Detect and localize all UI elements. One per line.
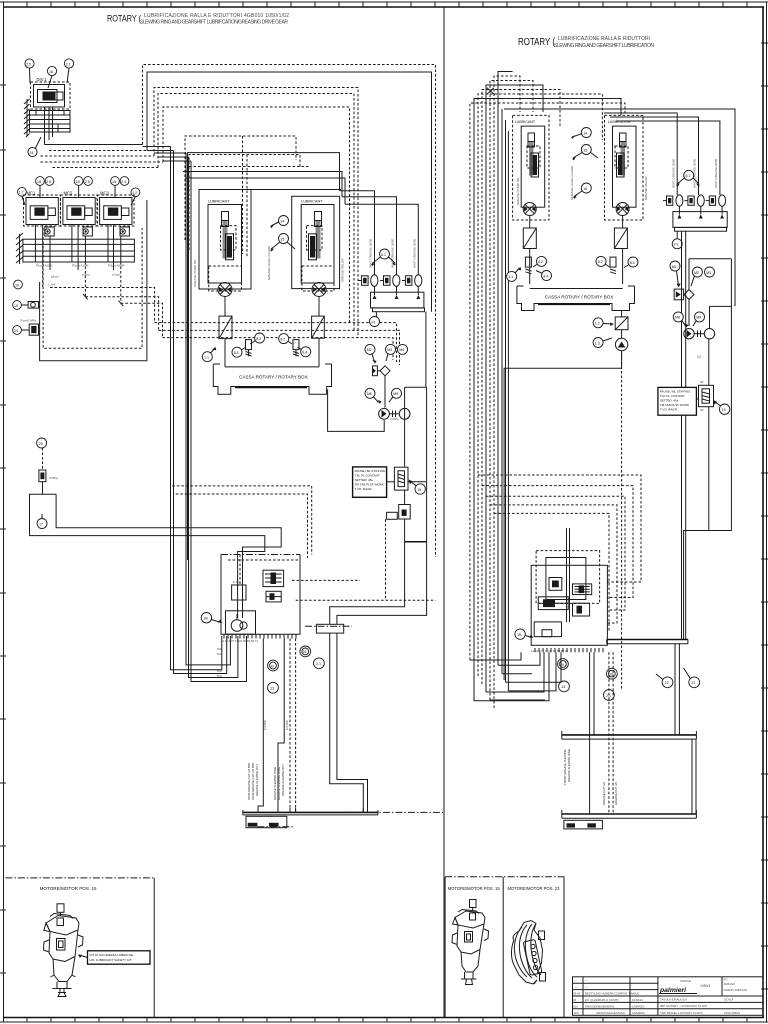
svg-text:CODICE: CODICE — [680, 979, 691, 983]
bundle solid vertical 3 — [186, 153, 230, 665]
svg-text:1/4 BSP: 1/4 BSP — [263, 720, 267, 730]
svg-text:EMISSIONE/GENERAL: EMISSIONE/GENERAL — [585, 1004, 615, 1008]
balloon M2 — [365, 344, 377, 363]
balloon 1.2 right of MC row — [131, 188, 140, 197]
svg-text:SLEWING RING AND GEARSHIFT LUB: SLEWING RING AND GEARSHIFT LUBRIFICATION — [554, 43, 654, 49]
svg-text:T.M. PL COSTANT: T.M. PL COSTANT — [660, 394, 685, 398]
MC3 pilot component — [120, 227, 129, 236]
valve DIV.1 body — [34, 85, 65, 108]
svg-text:13: 13 — [270, 687, 274, 691]
svg-text:p2out: p2out — [51, 275, 59, 279]
bundle R bottom hooks — [470, 652, 561, 700]
note box leader — [387, 481, 395, 483]
pump 2 internal dashed bottom box — [302, 266, 334, 291]
svg-text:2.5: 2.5 — [85, 180, 90, 184]
valve DIV.1 dashed enclosure — [31, 82, 71, 109]
svg-text:LUBRICANT: LUBRICANT — [515, 120, 536, 124]
column R manifold box — [673, 206, 727, 227]
balloon RM1 — [670, 261, 681, 288]
svg-text:18: 18 — [37, 180, 41, 184]
dashed bus MC to bundle y303 — [121, 303, 163, 337]
note box pump instructions — [353, 467, 387, 497]
balloon 17 in channel — [37, 514, 47, 529]
balloon R19 — [713, 400, 730, 414]
grease pump R1 inner box — [521, 126, 545, 207]
svg-text:A-SOL: A-SOL — [233, 580, 242, 584]
svg-text:IMP. ROTARY - HYDRAULIC PLANT: IMP. ROTARY - HYDRAULIC PLANT — [660, 1004, 708, 1008]
balloon 1.1 tank — [202, 347, 216, 362]
balloon R1.2 — [593, 318, 614, 328]
label 70A lower — [217, 669, 222, 678]
MC valve drop wires into manifold — [35, 225, 120, 263]
feed pump ellipse — [379, 408, 410, 419]
DIV.1 wall hatching — [24, 99, 30, 137]
svg-text:PAUSE / BL STIFFING: PAUSE / BL STIFFING — [660, 389, 691, 393]
title block bottom rows — [574, 998, 741, 1015]
svg-text:22: 22 — [665, 681, 669, 685]
dashdot bar extension right — [345, 811, 443, 813]
MC manifold block — [23, 239, 134, 262]
balloon M4 — [398, 344, 408, 354]
wire right dogleg dashed — [292, 579, 360, 581]
timer R riser — [708, 339, 710, 531]
pump R1 rotor circle — [523, 203, 536, 216]
balloon 19 timer — [409, 480, 426, 495]
svg-text:WHIT GREASE 30/50: WHIT GREASE 30/50 — [671, 158, 675, 188]
balloon 8.4 — [232, 347, 246, 357]
svg-text:8.2: 8.2 — [280, 337, 285, 341]
pump 1 internal dashed bottom box — [209, 266, 242, 291]
svg-text:P2out A10M: P2out A10M — [72, 264, 89, 268]
svg-text:M2: M2 — [694, 271, 699, 275]
svg-text:3 bar/2 MPa: 3 bar/2 MPa — [20, 319, 37, 323]
right loop wires — [684, 259, 732, 640]
svg-text:ROTARY (: ROTARY ( — [107, 14, 142, 25]
lower assembly R outer box — [531, 565, 607, 645]
valve MC1 — [26, 198, 58, 225]
check diamond — [380, 366, 390, 408]
svg-text:18: 18 — [112, 180, 116, 184]
pedestal R below bar — [564, 820, 603, 829]
svg-text:70A: 70A — [217, 669, 222, 673]
lower assembly R inner box — [546, 558, 586, 600]
svg-text:GREASE SLEWING OUT: GREASE SLEWING OUT — [281, 764, 285, 796]
balloon 1B assembly — [201, 613, 222, 624]
dashed bus MC to bundle y296 — [85, 297, 158, 331]
svg-text:1.7: 1.7 — [19, 191, 24, 195]
svg-text:19: 19 — [417, 488, 421, 492]
svg-text:LUBRICANT: LUBRICANT — [301, 200, 323, 204]
rotated labels right column R — [671, 158, 718, 188]
balloon 8.2 — [250, 333, 265, 344]
wire from tall box left edge to assembly — [330, 542, 405, 625]
svg-text:2.6: 2.6 — [46, 180, 51, 184]
svg-text:14: 14 — [280, 219, 284, 223]
solid risers right pair — [330, 633, 364, 812]
pressure switch note box R — [658, 387, 697, 415]
sheet centre divider between the two schematic halves — [443, 7, 445, 1018]
manifold outlet wire down — [425, 312, 427, 388]
svg-text:M8: M8 — [675, 316, 680, 320]
MC port tiny labels — [36, 264, 125, 287]
pumps enclosure solid box top — [188, 153, 340, 560]
svg-text:24: 24 — [14, 329, 18, 333]
pump R2 piston — [620, 133, 627, 176]
svg-text:13: 13 — [561, 685, 565, 689]
title block tiny row texts — [573, 979, 645, 1009]
rotated labels right column — [369, 238, 417, 268]
column R dosing valve 3 — [706, 195, 726, 206]
svg-text:SLEWING RING AND GEARSHIFT LUB: SLEWING RING AND GEARSHIFT LUBRIF.CATION… — [140, 20, 288, 26]
label 70A upper — [217, 647, 222, 656]
balloon 24 left column — [13, 326, 22, 335]
svg-text:1.1: 1.1 — [508, 275, 513, 279]
lower assembly R dashed outer — [536, 551, 600, 604]
filter F1 square — [219, 316, 232, 339]
dashed drop from grease shot valve — [385, 519, 387, 600]
svg-text:70A: 70A — [217, 674, 222, 678]
svg-text:1.2: 1.2 — [595, 322, 600, 326]
MC1 pilot component — [45, 227, 54, 236]
solenoid block — [232, 580, 246, 600]
long rail y109 — [504, 109, 735, 306]
grease pump unit 1 inner box — [208, 205, 242, 284]
svg-text:M3: M3 — [706, 271, 711, 275]
svg-text:8.2: 8.2 — [598, 260, 603, 264]
dashed bus MC to bundle y287 — [50, 288, 155, 323]
svg-text:GREASE LEVEL GAUGE: GREASE LEVEL GAUGE — [570, 166, 574, 200]
balloon 8.4b — [298, 347, 311, 357]
dashed staircase into lower assembly R — [478, 475, 641, 582]
svg-text:70A: 70A — [217, 647, 222, 651]
balloon R26 — [607, 668, 618, 679]
title block left table — [573, 977, 764, 1016]
pump R2 dark element — [617, 153, 625, 177]
port riser x284 — [278, 639, 284, 813]
gauge component left — [21, 302, 38, 309]
tall box bottom bold — [405, 541, 427, 543]
svg-text:M9: M9 — [393, 392, 398, 396]
vertical pair through timer — [405, 387, 427, 542]
svg-text:M3: M3 — [387, 348, 392, 352]
svg-text:GREASE PUMP 30L: GREASE PUMP 30L — [516, 177, 520, 205]
manifold bar R1 — [607, 640, 688, 644]
balloon F1 under manifold — [370, 312, 380, 327]
balloon R21 — [604, 690, 615, 701]
svg-text:EX. QUADRUPLO COSTR: EX. QUADRUPLO COSTR — [585, 998, 619, 1002]
wire bus dashed y150 — [49, 150, 147, 152]
nest wire dashed third — [154, 88, 358, 338]
svg-text:GREASE OUT 1/4: GREASE OUT 1/4 — [614, 782, 618, 805]
manifold R down pair — [682, 231, 686, 639]
svg-text:M9: M9 — [696, 316, 701, 320]
nest corner wires right half — [470, 103, 625, 660]
manifold bar R2 long — [562, 731, 697, 739]
assembly R lower pump box — [534, 622, 561, 637]
pump R1 dark element — [531, 153, 539, 177]
nest wire dashed fourth — [158, 94, 354, 331]
grease pump unit 2 inner box — [301, 205, 334, 284]
pump 2 rotor circle — [312, 283, 326, 297]
svg-text:18: 18 — [76, 180, 80, 184]
pump units top rail — [199, 189, 341, 191]
balloon R8.2 — [533, 256, 547, 267]
MC feeder stubs — [22, 185, 135, 205]
svg-text:PAUSE / BL STIFFING: PAUSE / BL STIFFING — [355, 469, 386, 473]
MC2 pilot component — [83, 227, 92, 236]
balloon R8.4 — [536, 271, 552, 281]
motor drawing R pos23 radial — [511, 921, 545, 985]
balloon 1.7 MC row — [18, 187, 27, 196]
sheet frame left border — [3, 2, 5, 1022]
svg-text:14: 14 — [583, 131, 587, 135]
motor pump box lower — [226, 611, 256, 634]
svg-text:TM TAB PLSF WORK: TM TAB PLSF WORK — [355, 483, 384, 487]
svg-text:2.1: 2.1 — [66, 62, 71, 66]
svg-text:8.4: 8.4 — [302, 351, 307, 355]
balloon M3 — [386, 344, 396, 361]
svg-text:CASSA ROTARY / ROTARY BOX: CASSA ROTARY / ROTARY BOX — [545, 295, 614, 300]
sheet frame right inner border — [762, 7, 764, 1018]
svg-text:8.4: 8.4 — [630, 261, 635, 265]
MC manifold wall hatching — [16, 233, 23, 264]
sheet frame outer top line — [0, 1, 768, 3]
balloon R15 — [572, 145, 598, 161]
filter R3 below tank — [615, 311, 628, 330]
svg-text:A1 A2 A3 P T1 M1 M2 B1 B2 C1: A1 A2 A3 P T1 M1 M2 B1 B2 C1 — [531, 649, 569, 653]
tank feed from pump1 — [224, 297, 226, 317]
svg-text:T.M. PL COSTANT: T.M. PL COSTANT — [355, 474, 380, 478]
balloon RF1 — [672, 231, 682, 249]
valve MC3 — [100, 198, 132, 225]
bar labels ticks — [258, 808, 363, 812]
svg-text:LUBRIFICAZIONE RALLA E RIDUTTO: LUBRIFICAZIONE RALLA E RIDUTTORI — [558, 36, 650, 42]
dashed feeder H1 into lower assembly — [172, 486, 311, 555]
frame ruler ticks right — [761, 43, 768, 989]
svg-text:01A: 01A — [573, 1004, 578, 1008]
column manifold box — [371, 286, 424, 308]
valve MC3 dashed enclosure — [97, 195, 134, 226]
svg-text:20: 20 — [271, 664, 275, 668]
svg-text:FG: FG — [724, 978, 728, 982]
pump R1 dashed pilot box — [527, 146, 540, 168]
balloon 13 below assembly — [268, 682, 279, 693]
svg-text:1B: 1B — [203, 617, 208, 621]
title left half — [107, 13, 289, 26]
balloon 21 right — [314, 658, 325, 669]
pedestal below bar — [246, 816, 287, 827]
column R dosing valve 2 — [684, 195, 704, 206]
svg-text:CASSA ROTARY / ROTARY BOX: CASSA ROTARY / ROTARY BOX — [239, 375, 308, 380]
balloon R8.2b — [596, 256, 610, 267]
balloon RM9 — [693, 312, 705, 326]
manifold bar R2 verticals down pair — [675, 644, 696, 814]
sheet frame right outer border — [766, 2, 768, 1022]
lower assembly dashed top overlay — [228, 555, 300, 586]
balloon RM2 — [691, 267, 702, 286]
balloon R1.1 — [507, 267, 522, 281]
bottom manifold bar left half — [243, 810, 378, 815]
relief valve left of tank 1 — [246, 340, 252, 357]
balloon R14 — [571, 128, 591, 139]
filter RF1 square — [523, 228, 536, 249]
right column R line1 — [604, 113, 677, 195]
svg-text:—: — — [585, 985, 588, 989]
assembly R right cartridge 1 — [573, 584, 592, 595]
balloon 26 right — [300, 646, 311, 657]
nest wire dashed top outermost — [143, 65, 436, 301]
svg-text:SETTED: 45s: SETTED: 45s — [660, 398, 679, 402]
assembly R bottom ticks — [535, 648, 603, 652]
valve MC2 dashed enclosure — [60, 195, 97, 226]
DIV.1 manifold block — [30, 111, 71, 133]
svg-text:WHIT GREASE 30/50: WHIT GREASE 30/50 — [369, 238, 373, 268]
right column line 2 — [342, 197, 397, 275]
pump 1 dashed pilot box — [221, 226, 237, 250]
balloon R8.4b — [624, 257, 638, 268]
svg-text:70A: 70A — [217, 652, 222, 656]
grease shot valve below — [387, 505, 411, 520]
svg-text:MOTORE/MOTOR POS. 23: MOTORE/MOTOR POS. 23 — [508, 886, 561, 891]
assembly R solenoid — [549, 578, 562, 591]
motor boxes R top border — [445, 877, 564, 1018]
pressure group diamond — [684, 290, 694, 327]
manifold bar R3 bottom — [562, 810, 697, 818]
wire right dogleg dashed lower — [296, 599, 436, 601]
MC section solid enclosure — [40, 200, 147, 361]
rail verticals left bundle solids — [502, 109, 508, 691]
tank CASSA ROTARY outline — [213, 364, 331, 394]
grease nipple component left — [20, 319, 39, 336]
balloon R8.1 — [676, 170, 700, 186]
svg-text:A1 A2 A3 P T1 M1 M2 B1 B2 C1: A1 A2 A3 P T1 M1 M2 B1 B2 C1 — [221, 639, 259, 643]
balloon 25 far left — [37, 438, 47, 448]
sheet frame bottom outer line — [0, 1021, 768, 1023]
svg-text:8.2: 8.2 — [538, 260, 543, 264]
title right half — [518, 36, 654, 49]
frame ruler ticks bottom — [27, 1018, 747, 1023]
motor pos15 isometric drawing — [44, 904, 84, 997]
nested solid wire to column line3 — [185, 178, 345, 204]
port riser x263 — [258, 639, 263, 813]
bundle solid vertical 1 — [171, 147, 222, 670]
dashdot centerline through pedestal — [257, 826, 293, 828]
svg-text:2.1: 2.1 — [316, 662, 321, 666]
svg-text:GREASE SLEWING RING: GREASE SLEWING RING — [567, 749, 571, 782]
svg-text:SETTED: 45s: SETTED: 45s — [355, 478, 374, 482]
motor pos15 note box — [78, 951, 150, 964]
balloon RM3 — [705, 267, 715, 277]
title block outer — [573, 977, 764, 1016]
nest wire solid second — [147, 72, 432, 312]
balloon R22 — [656, 674, 673, 688]
column R dosing valve 1 — [663, 195, 683, 206]
svg-text:M2: M2 — [367, 348, 372, 352]
svg-text:1/MARZO: 1/MARZO — [632, 1004, 645, 1008]
dashed long drop R — [621, 353, 623, 690]
balloon 2.6 — [45, 177, 54, 186]
svg-text:palmieri: palmieri — [659, 987, 686, 994]
tank bold bottom line — [235, 386, 307, 388]
bundle solid vertical 4 — [189, 157, 238, 678]
check valve R below filter — [615, 330, 627, 351]
svg-text:1050-1050/1: 1050-1050/1 — [724, 1011, 741, 1015]
svg-text:TAB. MODEL 1 ROTARY PLANT: TAB. MODEL 1 ROTARY PLANT — [660, 1011, 702, 1015]
balloon 15 mid — [270, 234, 295, 252]
svg-text:03-03: 03-03 — [573, 992, 581, 996]
bundle solid vertical 5 — [191, 161, 247, 682]
motor drawing R pos15 — [452, 900, 489, 985]
second riser from pad — [337, 633, 368, 812]
pump 2 cartridge piston — [315, 212, 322, 259]
pump ellipse R — [684, 329, 715, 339]
tank feed from pump2 — [318, 297, 320, 317]
dashdot centreline through pad — [305, 625, 352, 627]
filter F2 square — [312, 316, 325, 338]
risers between assembly R and bars — [590, 652, 594, 814]
sheet frame bottom inner line — [3, 1017, 764, 1019]
svg-text:LUBRICANT: LUBRICANT — [208, 200, 230, 204]
balloon 14 — [270, 216, 289, 229]
balloon 15 left column — [13, 301, 22, 310]
outlet L wire R — [504, 351, 621, 681]
grease pump unit 2 outer box — [292, 196, 340, 288]
assembly R horizontal cartridge — [538, 597, 568, 610]
svg-text:26: 26 — [303, 650, 307, 654]
svg-text:DIS.: DIS. — [574, 1011, 580, 1015]
cartridge valve lower right — [266, 591, 281, 602]
svg-text:—: — — [632, 992, 635, 996]
pump R2 dashed pilot box — [615, 146, 628, 168]
frame ruler ticks left — [0, 85, 6, 973]
right column line 1 — [340, 191, 375, 275]
svg-text:GREASE LEVEL GAUGE: GREASE LEVEL GAUGE — [267, 246, 271, 280]
svg-text:GREASE RELIEF: GREASE RELIEF — [341, 258, 345, 282]
svg-text:TM TAB PLSF WORK: TM TAB PLSF WORK — [660, 403, 689, 407]
svg-text:2.2: 2.2 — [26, 62, 31, 66]
svg-text:2 MPa: 2 MPa — [390, 417, 399, 421]
svg-text:1 Jeff: 1 Jeff — [48, 283, 55, 287]
svg-text:DIV.1: DIV.1 — [37, 77, 48, 82]
svg-text:GREASE OUT 1/4: GREASE OUT 1/4 — [602, 782, 606, 805]
valve MC1 dashed enclosure — [24, 195, 61, 226]
balloon 18c — [111, 177, 120, 186]
dashed cross bus y330 — [159, 330, 400, 365]
balloon RM8 — [673, 312, 688, 327]
pump R2 rotor circle — [616, 203, 629, 216]
pump 2 dashed pilot box — [307, 226, 323, 250]
svg-text:24: 24 — [29, 151, 33, 155]
svg-text:p2out: p2out — [82, 273, 90, 277]
assembly port smudge labels — [221, 639, 259, 643]
pump 1 rotor circle — [218, 283, 232, 297]
nested solid wire to column line2 — [183, 172, 342, 197]
svg-text:WHIT GREASE 30/50: WHIT GREASE 30/50 — [714, 158, 718, 188]
MC section dashed enclosure — [43, 228, 142, 348]
balloon R1B — [515, 629, 533, 639]
bundle solid vertical 2 — [174, 151, 227, 674]
coupling symbol R — [694, 330, 704, 337]
pumps dashed enclosure A — [185, 136, 296, 240]
dashed cross bus y337 — [163, 338, 394, 360]
svg-text:F1: F1 — [674, 243, 678, 247]
svg-text:17: 17 — [39, 522, 43, 526]
svg-text:M4: M4 — [399, 348, 404, 352]
svg-text:16: 16 — [583, 187, 587, 191]
balloon 2.5 — [84, 177, 93, 186]
svg-text:4GB010-1050/1/02: 4GB010-1050/1/02 — [724, 988, 748, 992]
svg-text:3 MPa: 3 MPa — [49, 476, 58, 480]
